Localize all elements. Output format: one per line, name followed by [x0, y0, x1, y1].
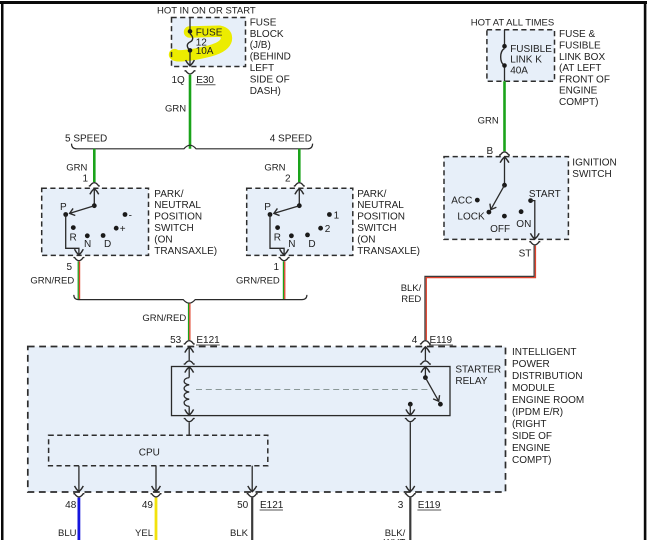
- relay open contact dot: [438, 402, 443, 407]
- svg-text:FUSE &: FUSE &: [559, 29, 595, 40]
- svg-text:TRANSAXLE): TRANSAXLE): [154, 246, 217, 257]
- svg-text:SWITCH: SWITCH: [357, 223, 396, 234]
- svg-text:INTELLIGENT: INTELLIGENT: [512, 347, 576, 358]
- contact minus dot: [123, 212, 128, 217]
- contact plus dot: [114, 226, 119, 231]
- svg-text:FUSIBLE: FUSIBLE: [559, 41, 601, 52]
- switch blade to P right: [274, 206, 299, 214]
- svg-text:BLK/: BLK/: [401, 283, 422, 294]
- connector cup below relay coil: [184, 419, 195, 422]
- wire GRN/RED right: [283, 261, 284, 299]
- arrow into relay at coil: [185, 367, 194, 373]
- svg-text:1: 1: [82, 173, 88, 184]
- contact P dot right: [268, 212, 273, 217]
- svg-text:FRONT OF: FRONT OF: [559, 74, 610, 85]
- svg-text:1Q: 1Q: [172, 75, 186, 86]
- wire BLK/WHT: [409, 498, 411, 540]
- connector cap at pin 4: [420, 341, 431, 344]
- wire label BLK/WHT: [384, 528, 406, 540]
- svg-text:B: B: [487, 146, 494, 157]
- wire BLU: [78, 498, 81, 540]
- wire B to pivot: [504, 157, 506, 185]
- arrow out of fuse block: [186, 60, 195, 66]
- contact START dot: [528, 198, 533, 203]
- svg-text:RED: RED: [401, 294, 421, 305]
- arrow out of PNP switch left: [75, 249, 84, 255]
- highlighter mark (yellow) over fuse: [175, 31, 227, 56]
- svg-text:10A: 10A: [196, 46, 214, 57]
- svg-text:LINK BOX: LINK BOX: [559, 52, 605, 63]
- connector name E119 top: [429, 335, 453, 346]
- svg-text:GRN: GRN: [165, 103, 186, 114]
- svg-text:5: 5: [66, 262, 72, 273]
- wire pin1 to pivot: [93, 188, 95, 205]
- starter relay box: [172, 367, 451, 416]
- svg-text:(BEHIND: (BEHIND: [250, 52, 291, 63]
- contact N dot: [85, 233, 90, 238]
- svg-text:LINK K: LINK K: [510, 55, 542, 66]
- wire fuse top stub: [189, 18, 191, 31]
- contact D dot right: [305, 233, 310, 238]
- wire BLK/RED from ST to pin 4: [425, 246, 535, 340]
- svg-text:GRN/RED: GRN/RED: [236, 275, 280, 286]
- svg-text:POSITION: POSITION: [357, 212, 405, 223]
- contact P dot: [63, 212, 68, 217]
- svg-text:4: 4: [412, 335, 418, 346]
- contact LOCK dot: [487, 210, 492, 215]
- svg-text:(IPDM E/R): (IPDM E/R): [512, 407, 563, 418]
- wire CPU to pin 48: [78, 466, 80, 492]
- svg-text:HOT AT ALL TIMES: HOT AT ALL TIMES: [471, 18, 554, 29]
- arrow into ignition switch: [500, 157, 509, 163]
- svg-text:49: 49: [142, 500, 154, 511]
- svg-text:N: N: [84, 239, 91, 250]
- connector cap at pin 2: [294, 183, 305, 186]
- svg-text:(RIGHT: (RIGHT: [512, 419, 546, 430]
- svg-text:GRN: GRN: [264, 163, 285, 174]
- svg-text:(J/B): (J/B): [250, 40, 271, 51]
- wire P to pin 5: [66, 215, 79, 256]
- svg-text:DISTRIBUTION: DISTRIBUTION: [512, 371, 583, 382]
- svg-text:53: 53: [170, 335, 182, 346]
- fuse F12 symbol: [187, 29, 192, 53]
- svg-text:1: 1: [334, 211, 340, 222]
- wire relay top to coil: [188, 367, 190, 378]
- svg-text:BLK: BLK: [230, 528, 249, 539]
- wire GRN to ignition switch: [503, 81, 506, 151]
- arrow out of IPDM at 48: [75, 486, 84, 492]
- svg-text:(AT LEFT: (AT LEFT: [559, 63, 601, 74]
- wire output contact to relay bottom: [409, 404, 411, 415]
- switch blade to P: [70, 206, 95, 214]
- relay internal dashed line: [196, 389, 431, 391]
- connector name E119 bottom: [417, 500, 441, 511]
- contact 2 dot: [318, 226, 323, 231]
- svg-text:PARK/: PARK/: [357, 189, 386, 200]
- contact 1 dot: [327, 212, 332, 217]
- svg-text:IGNITION: IGNITION: [572, 158, 616, 169]
- connector cup at pin 3: [405, 494, 416, 497]
- arrow into IPDM at 53: [185, 347, 194, 353]
- svg-text:POSITION: POSITION: [154, 212, 202, 223]
- arrow into IPDM at 4: [421, 347, 430, 353]
- svg-text:NEUTRAL: NEUTRAL: [154, 200, 201, 211]
- connector cap above relay switch: [420, 361, 431, 364]
- split brace 5 SPEED / 4 SPEED: [72, 144, 313, 149]
- svg-text:50: 50: [237, 500, 249, 511]
- svg-text:TRANSAXLE): TRANSAXLE): [357, 246, 420, 257]
- wire 4 to relay switch: [424, 347, 426, 361]
- svg-text:5 SPEED: 5 SPEED: [65, 134, 107, 145]
- wire coil to CPU: [188, 422, 190, 435]
- svg-text:RELAY: RELAY: [455, 376, 487, 387]
- svg-text:GRN: GRN: [66, 163, 87, 174]
- wire CPU to pin 49: [155, 466, 157, 492]
- wire GRN/RED center: [189, 303, 190, 340]
- label IGNITION SWITCH: [572, 158, 616, 180]
- park/neutral position switch (5 speed) dashed box: [42, 188, 149, 255]
- arrow out of IPDM at 3: [406, 486, 415, 492]
- svg-text:SWITCH: SWITCH: [572, 169, 611, 180]
- svg-text:2: 2: [325, 224, 331, 235]
- connector name E30: [196, 75, 216, 86]
- connector name E121 bottom: [260, 500, 284, 511]
- svg-text:LEFT: LEFT: [250, 63, 274, 74]
- svg-text:LOCK: LOCK: [457, 212, 485, 223]
- svg-text:ON: ON: [516, 219, 531, 230]
- svg-text:2: 2: [285, 173, 291, 184]
- connector E30 cup: [185, 71, 196, 74]
- arrow out of ignition switch: [530, 233, 539, 239]
- pivot dot right PNP: [297, 203, 302, 208]
- contact R dot right: [275, 225, 280, 230]
- pivot dot ignition: [502, 183, 507, 188]
- CPU dashed box: [49, 435, 268, 466]
- svg-text:R: R: [274, 233, 281, 244]
- ignition blade toward LOCK: [491, 185, 505, 209]
- svg-text:P: P: [264, 202, 271, 213]
- wire GRN right branch: [298, 149, 301, 182]
- wire fusible bottom stub: [504, 68, 506, 82]
- connector name E121 top: [196, 335, 220, 346]
- contact OFF dot: [502, 214, 507, 219]
- wire GRN/RED left: [78, 261, 79, 299]
- connector cap above relay coil: [184, 361, 195, 364]
- contact R dot: [71, 225, 76, 230]
- svg-text:ENGINE: ENGINE: [559, 86, 598, 97]
- frame border right: [644, 1, 647, 540]
- svg-text:D: D: [308, 239, 315, 250]
- svg-text:CPU: CPU: [139, 447, 160, 458]
- connector cap at pin 53: [184, 341, 195, 344]
- label PARK/NEUTRAL POSITION SWITCH (ON TRANSAXLE) left: [154, 189, 217, 257]
- frame border top: [0, 1, 647, 4]
- label INTELLIGENT POWER DISTRIBUTION MODULE ENGINE ROOM (IPDM E/R) (RIGHT SIDE OF ENGINE COMPT): [512, 347, 584, 466]
- svg-text:SIDE OF: SIDE OF: [250, 74, 290, 85]
- connector cup at pin 49: [151, 494, 162, 497]
- arrow into relay at switch: [421, 367, 430, 373]
- frame border left: [1, 1, 4, 540]
- svg-text:POWER: POWER: [512, 359, 550, 370]
- ignition switch dashed box: [444, 157, 568, 240]
- fusible link K symbol: [501, 44, 507, 68]
- svg-text:OFF: OFF: [490, 224, 510, 235]
- svg-text:NEUTRAL: NEUTRAL: [357, 200, 404, 211]
- svg-text:PARK/: PARK/: [154, 189, 183, 200]
- contact ACC dot: [475, 198, 480, 203]
- fuse block box dashed border: [172, 18, 246, 67]
- wire GRN left branch: [93, 149, 96, 182]
- svg-text:SIDE OF: SIDE OF: [512, 431, 552, 442]
- fuse block J/B dashed box: [172, 18, 246, 67]
- svg-text:-: -: [129, 211, 132, 222]
- wire pin2 to pivot: [298, 188, 300, 205]
- connector cup at pin 50: [247, 494, 258, 497]
- svg-text:GRN/RED: GRN/RED: [30, 275, 74, 286]
- label FUSE & FUSIBLE LINK BOX (AT LEFT FRONT OF ENGINE COMPT): [559, 29, 610, 108]
- arrow out of PNP switch right: [280, 249, 289, 255]
- wire 53 to relay coil: [188, 347, 190, 361]
- svg-text:COMPT): COMPT): [559, 97, 598, 108]
- wire relay to pin 3: [409, 422, 411, 491]
- svg-text:START: START: [529, 189, 561, 200]
- svg-text:MODULE: MODULE: [512, 383, 555, 394]
- label STARTER RELAY: [455, 365, 501, 387]
- svg-text:DASH): DASH): [250, 86, 281, 97]
- connector cup below relay switch: [405, 419, 416, 422]
- svg-text:ENGINE: ENGINE: [512, 443, 551, 454]
- svg-text:48: 48: [65, 500, 77, 511]
- wire coil to relay bottom: [188, 406, 190, 415]
- relay common contact dot: [423, 375, 428, 380]
- arrow into PNP switch right: [295, 189, 304, 195]
- fuse and fusible link box dashed box: [487, 30, 555, 81]
- label FUSE BLOCK (J/B) (BEHIND LEFT SIDE OF DASH): [250, 17, 291, 96]
- wire YEL: [155, 498, 158, 540]
- wire label BLK/RED: [401, 283, 422, 305]
- wire BLK: [251, 498, 253, 540]
- svg-text:GRN: GRN: [478, 115, 499, 126]
- contact N dot right: [289, 233, 294, 238]
- svg-text:+: +: [120, 224, 126, 235]
- relay blade: [425, 378, 438, 402]
- arrow out of IPDM at 49: [152, 486, 161, 492]
- svg-text:(ON: (ON: [357, 234, 375, 245]
- wire CPU to pin 50: [251, 466, 253, 492]
- merge brace to pin 53: [74, 295, 307, 303]
- wire fuse bottom stub: [189, 52, 191, 66]
- svg-text:HOT IN ON OR START: HOT IN ON OR START: [157, 6, 256, 17]
- svg-text:ACC: ACC: [451, 195, 472, 206]
- connector cup at pin 48: [73, 494, 84, 497]
- arrow out of IPDM at 50: [248, 486, 257, 492]
- value label FUSIBLE LINK K 40A: [510, 44, 552, 76]
- svg-text:R: R: [70, 233, 77, 244]
- svg-text:D: D: [104, 239, 111, 250]
- svg-text:YEL: YEL: [135, 528, 153, 539]
- svg-text:40A: 40A: [510, 65, 528, 76]
- arrow into PNP switch left: [90, 189, 99, 195]
- svg-text:ENGINE ROOM: ENGINE ROOM: [512, 395, 584, 406]
- arrow out of relay at switch: [406, 409, 415, 415]
- wire fusible top stub: [504, 30, 506, 45]
- connector cap at pin 1: [89, 183, 100, 186]
- value label FUSE 12 10A: [196, 28, 223, 58]
- svg-text:STARTER: STARTER: [455, 365, 501, 376]
- connector cup at ST: [529, 242, 540, 245]
- IPDM E/R dashed box: [28, 347, 506, 493]
- svg-text:N: N: [288, 239, 295, 250]
- relay coil: [184, 378, 189, 407]
- wire GRN from E30 to split: [189, 75, 192, 149]
- contact D dot: [101, 233, 106, 238]
- svg-text:4 SPEED: 4 SPEED: [270, 134, 312, 145]
- contact ON dot: [519, 209, 524, 214]
- svg-text:COMPT): COMPT): [512, 455, 551, 466]
- svg-text:FUSIBLE: FUSIBLE: [510, 44, 552, 55]
- pivot dot left PNP: [92, 203, 97, 208]
- svg-text:BLU: BLU: [58, 528, 77, 539]
- svg-text:SWITCH: SWITCH: [154, 223, 193, 234]
- svg-text:3: 3: [398, 500, 404, 511]
- svg-text:P: P: [60, 202, 67, 213]
- connector cap at B: [499, 152, 510, 155]
- connector cup at pin 1 bottom: [279, 258, 290, 261]
- wire START to ST: [531, 201, 535, 240]
- park/neutral position switch (4 speed) dashed box: [247, 188, 353, 255]
- label PARK/NEUTRAL POSITION SWITCH (ON TRANSAXLE) right: [357, 189, 420, 257]
- arrow out of relay at coil: [185, 409, 194, 415]
- wire relay top to common contact: [424, 367, 426, 378]
- wire P to pin 1 right: [270, 215, 284, 256]
- svg-text:FUSE: FUSE: [250, 17, 277, 28]
- svg-text:GRN/RED: GRN/RED: [142, 313, 186, 324]
- svg-text:1: 1: [273, 262, 279, 273]
- svg-text:ST: ST: [519, 248, 532, 259]
- connector cup at pin 5: [73, 258, 84, 261]
- relay output contact dot: [408, 402, 413, 407]
- svg-text:(ON: (ON: [154, 234, 172, 245]
- svg-text:BLOCK: BLOCK: [250, 29, 284, 40]
